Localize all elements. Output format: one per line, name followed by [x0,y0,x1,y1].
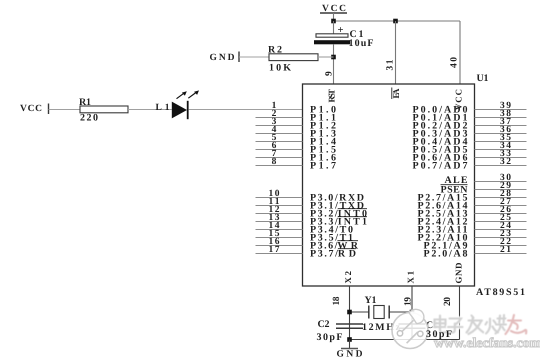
watermark glyph fa [467,316,484,335]
svg-text:GND: GND [337,350,363,360]
wire VCC stub [333,13,335,21]
pin name VCC (pin40) [454,89,464,110]
watermark glyph shao [486,315,508,334]
capacitor C1 [314,34,350,45]
junction at R2/RST [331,55,336,60]
svg-text:10K: 10K [269,63,291,74]
pin 12 P3.2/INT0 [256,205,368,220]
watermark glyph zi [448,319,463,333]
label C3 (under watermark) [426,320,438,331]
wire GND (pin 20) drop [459,286,461,340]
svg-text:21: 21 [500,245,511,255]
wire crystal right [389,311,412,313]
designator U1 [477,73,489,84]
watermark glyph dian [435,316,447,333]
watermark text www.elecfans.com [434,335,540,350]
value 220 (R1) [80,113,98,124]
svg-text:18: 18 [332,296,342,305]
label R2 [268,44,282,55]
ground symbol GND (bottom) [337,349,363,360]
pin number 40 [450,57,460,68]
svg-text:AT89S51: AT89S51 [476,287,525,298]
pin 33 P0.6/AD6 [413,149,527,164]
pin 4 P1.3 [256,125,337,140]
pin 36 P0.3/AD3 [413,125,527,140]
resistor R1 [80,106,128,113]
pin name X1 [406,271,416,284]
polarity + (C1) [338,25,344,36]
pin 23 P2.2/A10 [418,229,527,244]
pin 13 P3.3/INT1 [256,213,368,228]
pin number 19 [404,297,414,306]
pin name GND (pin20) [454,263,464,284]
pin 32 P0.7/AD7 [413,157,527,172]
power port VCC (left) [20,104,49,115]
svg-text:10uF: 10uF [349,38,374,49]
junction X2/crystal [347,310,352,315]
svg-text:17: 17 [269,245,280,255]
svg-text:30pF: 30pF [317,332,343,343]
wire LED to pin 1 (net P1.0) [189,109,303,111]
pin 35 P0.4/AD4 [413,133,527,148]
pin 27 P2.6/A14 [418,197,527,212]
svg-text:20: 20 [443,297,453,306]
watermark logo (elecfans) [392,309,428,348]
pin 3 P1.2 [256,117,337,132]
pin 5 P1.4 [256,133,337,148]
junction X1/crystal [410,310,415,315]
wire X1 (pin 19) drop [411,286,413,340]
svg-text:32: 32 [500,157,511,167]
svg-text:C2: C2 [318,319,330,330]
wire EA (pin 31) drop [395,21,397,84]
wire crystal left [350,311,369,313]
pin number 9 [325,71,335,76]
wire pin 40 drop [459,21,461,84]
label L1 [156,103,170,113]
pin 8 P1.7 [256,157,337,172]
pin number 20 [443,297,453,306]
pin 39 P0.0/AD0 [413,101,527,116]
pin 34 P0.5/AD5 [413,141,527,156]
pin name X2 [343,270,353,283]
capacitor C3 [399,324,426,328]
junction at RST/VCC rail [331,19,336,24]
pin 24 P2.3/A11 [418,221,527,236]
pin 6 P1.5 [256,141,337,156]
pin 38 P0.1/AD1 [413,109,527,124]
svg-text:Y1: Y1 [365,295,377,306]
svg-text:R1: R1 [79,97,91,108]
watermark glyph you (red) [506,315,527,334]
svg-text:EA: EA [391,88,401,99]
svg-text:VCC: VCC [20,104,42,114]
crystal Y1 [369,306,389,319]
label Y1 [365,295,377,306]
wire VCC to R1 [49,109,81,111]
svg-text:GND: GND [454,263,464,284]
wire GND to R2 [239,56,269,58]
svg-text:R2: R2 [268,44,282,55]
pin 28 P2.7/A15 [418,189,527,204]
pin 16 P3.6/WR [256,237,359,252]
svg-text:+: + [338,25,344,36]
LED L1 [172,101,188,119]
pin 2 P1.1 [256,109,337,124]
pin 7 P1.6 [256,149,337,164]
svg-text:8: 8 [272,157,277,167]
pin 21 P2.0/A8 [424,245,527,260]
LED arrow 2 [188,90,199,98]
svg-text:P0.7/AD7: P0.7/AD7 [413,161,468,172]
LED arrow 1 [177,91,187,99]
pin 14 P3.4/T0 [256,221,354,236]
value 10uF (C1) [349,38,374,49]
wire C1 to RST [333,44,335,84]
wire X2 (pin 18) drop [349,286,351,340]
pin number 18 [332,296,342,305]
wire to ground symbol [349,340,351,349]
pin name EA (overline) [391,88,401,100]
pin 15 P3.5/T1 [256,229,354,244]
wire VCC rail to pin 40 [334,20,461,22]
svg-text:9: 9 [325,71,335,76]
power port GND (R2) [210,52,240,64]
pin number 31 [386,59,396,70]
capacitor C2 [336,324,363,328]
pin 30 ALE [445,173,527,186]
power symbol VCC (top) [320,4,347,14]
pin 11 P3.1/TXD [256,197,365,212]
svg-text:40: 40 [450,57,460,68]
pin 29 PSEN [441,181,527,196]
junction rail left [347,337,352,342]
svg-text:P1.7: P1.7 [310,161,336,172]
wire R2 to RST node [318,56,334,58]
resistor R2 [269,54,318,61]
junction at EA tap [393,19,398,24]
wire rail to C1 [333,21,335,34]
ground rail [350,339,460,341]
value 12MHz (Y1) [362,322,401,333]
pin 17 P3.7/RD [256,245,357,260]
pin 26 P2.5/A13 [418,205,527,220]
pin 25 P2.4/A12 [418,213,527,228]
value 30pF (C3) [426,329,452,340]
value 30pF (C2) [317,332,343,343]
pin 10 P3.0/RXD [256,189,365,204]
svg-text:31: 31 [386,59,396,70]
wire R1 to LED [128,109,172,111]
value 10K (R2) [269,63,291,74]
label C1 [350,29,364,40]
label R1 [79,97,91,108]
pin 1 P1.0 [272,101,336,116]
svg-text:U1: U1 [477,73,489,84]
svg-text:GND: GND [210,53,235,63]
svg-text:X1: X1 [406,271,416,284]
pin 22 P2.1/A9 [424,237,527,252]
svg-text:30pF: 30pF [426,329,452,340]
svg-text:RST: RST [327,89,337,103]
pin 37 P0.2/AD2 [413,117,527,132]
label C2 [318,319,330,330]
part number AT89S51 [476,287,525,298]
svg-text:220: 220 [80,113,98,124]
op IC U1 AT89S51 body [303,84,475,286]
pin name RST [327,89,337,103]
